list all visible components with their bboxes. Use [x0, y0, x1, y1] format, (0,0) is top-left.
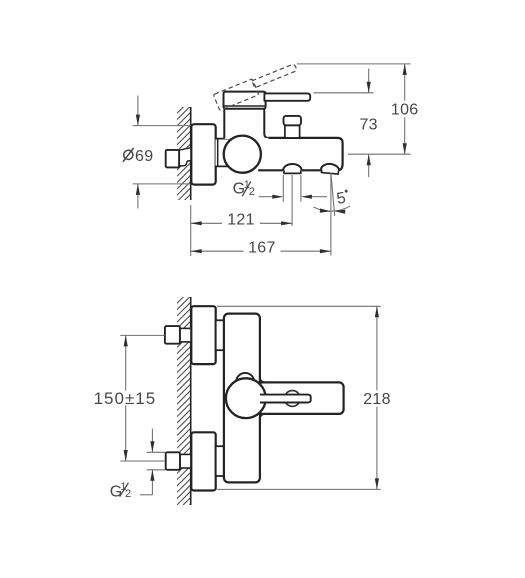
- shower outlet (vertical, top view): [284, 170, 301, 173]
- svg-text:69: 69: [135, 148, 153, 165]
- lever arm (top view): [264, 93, 310, 100]
- dim 121: [191, 222, 222, 224]
- dim 150±15: [120, 334, 164, 336]
- svg-text:218: 218: [363, 391, 391, 408]
- outlet extension lines: [282, 175, 284, 202]
- wall face line (top view): [190, 107, 192, 200]
- dim 167: [191, 250, 244, 252]
- lower supply pipe: [180, 454, 191, 468]
- lever raised position (dashed): [213, 62, 300, 111]
- svg-text:121: 121: [227, 212, 255, 229]
- dim 218: [217, 305, 381, 307]
- svg-text:2: 2: [125, 488, 131, 500]
- svg-text:73: 73: [359, 117, 377, 134]
- lever bar (bottom view): [260, 395, 311, 403]
- extension line below wall (top view): [190, 205, 192, 256]
- dim ø69: [133, 125, 191, 127]
- upper neck: [216, 320, 224, 350]
- upper escutcheon: [191, 306, 215, 364]
- dim extension lines 106/73: [297, 63, 411, 65]
- upper supply pipe: [180, 328, 191, 342]
- eccentric supply union (top view): [179, 148, 191, 166]
- spout body (top view): [256, 138, 343, 170]
- dim 73: [368, 69, 370, 93]
- lower escutcheon: [191, 432, 215, 490]
- upper supply nut: [165, 326, 180, 344]
- diverter knob (top view): [285, 125, 300, 138]
- spout (bottom view): [258, 382, 344, 414]
- 5 deg arc: [314, 206, 351, 211]
- svg-text:2: 2: [249, 186, 255, 198]
- diverter knob small circle (bottom view): [285, 391, 301, 407]
- svg-text:167: 167: [248, 240, 276, 257]
- spout outlet tilted 5 deg (top view): [321, 163, 340, 174]
- ø69 label: [124, 150, 133, 159]
- wall escutcheon Ø69 (top view): [191, 124, 215, 184]
- dim 106: [404, 64, 406, 101]
- lever cap (top view): [224, 92, 266, 109]
- wall face line (bottom view): [190, 297, 192, 505]
- lower neck: [216, 446, 224, 476]
- valve circle (bottom view): [226, 378, 266, 418]
- svg-text:106: 106: [391, 102, 419, 119]
- dim G1/2 (bottom view): [147, 451, 166, 453]
- dome cap on circle: [236, 373, 254, 382]
- lower supply nut: [166, 452, 180, 470]
- valve body circle (top view): [224, 136, 261, 173]
- 5 deg tilted line: [331, 173, 335, 216]
- collar between escutcheon and body: [216, 139, 234, 167]
- main body (bottom view): [224, 314, 260, 483]
- cartridge shaft (top view): [224, 104, 264, 139]
- svg-text:150±15: 150±15: [94, 389, 157, 408]
- supply nut (top view): [166, 150, 179, 168]
